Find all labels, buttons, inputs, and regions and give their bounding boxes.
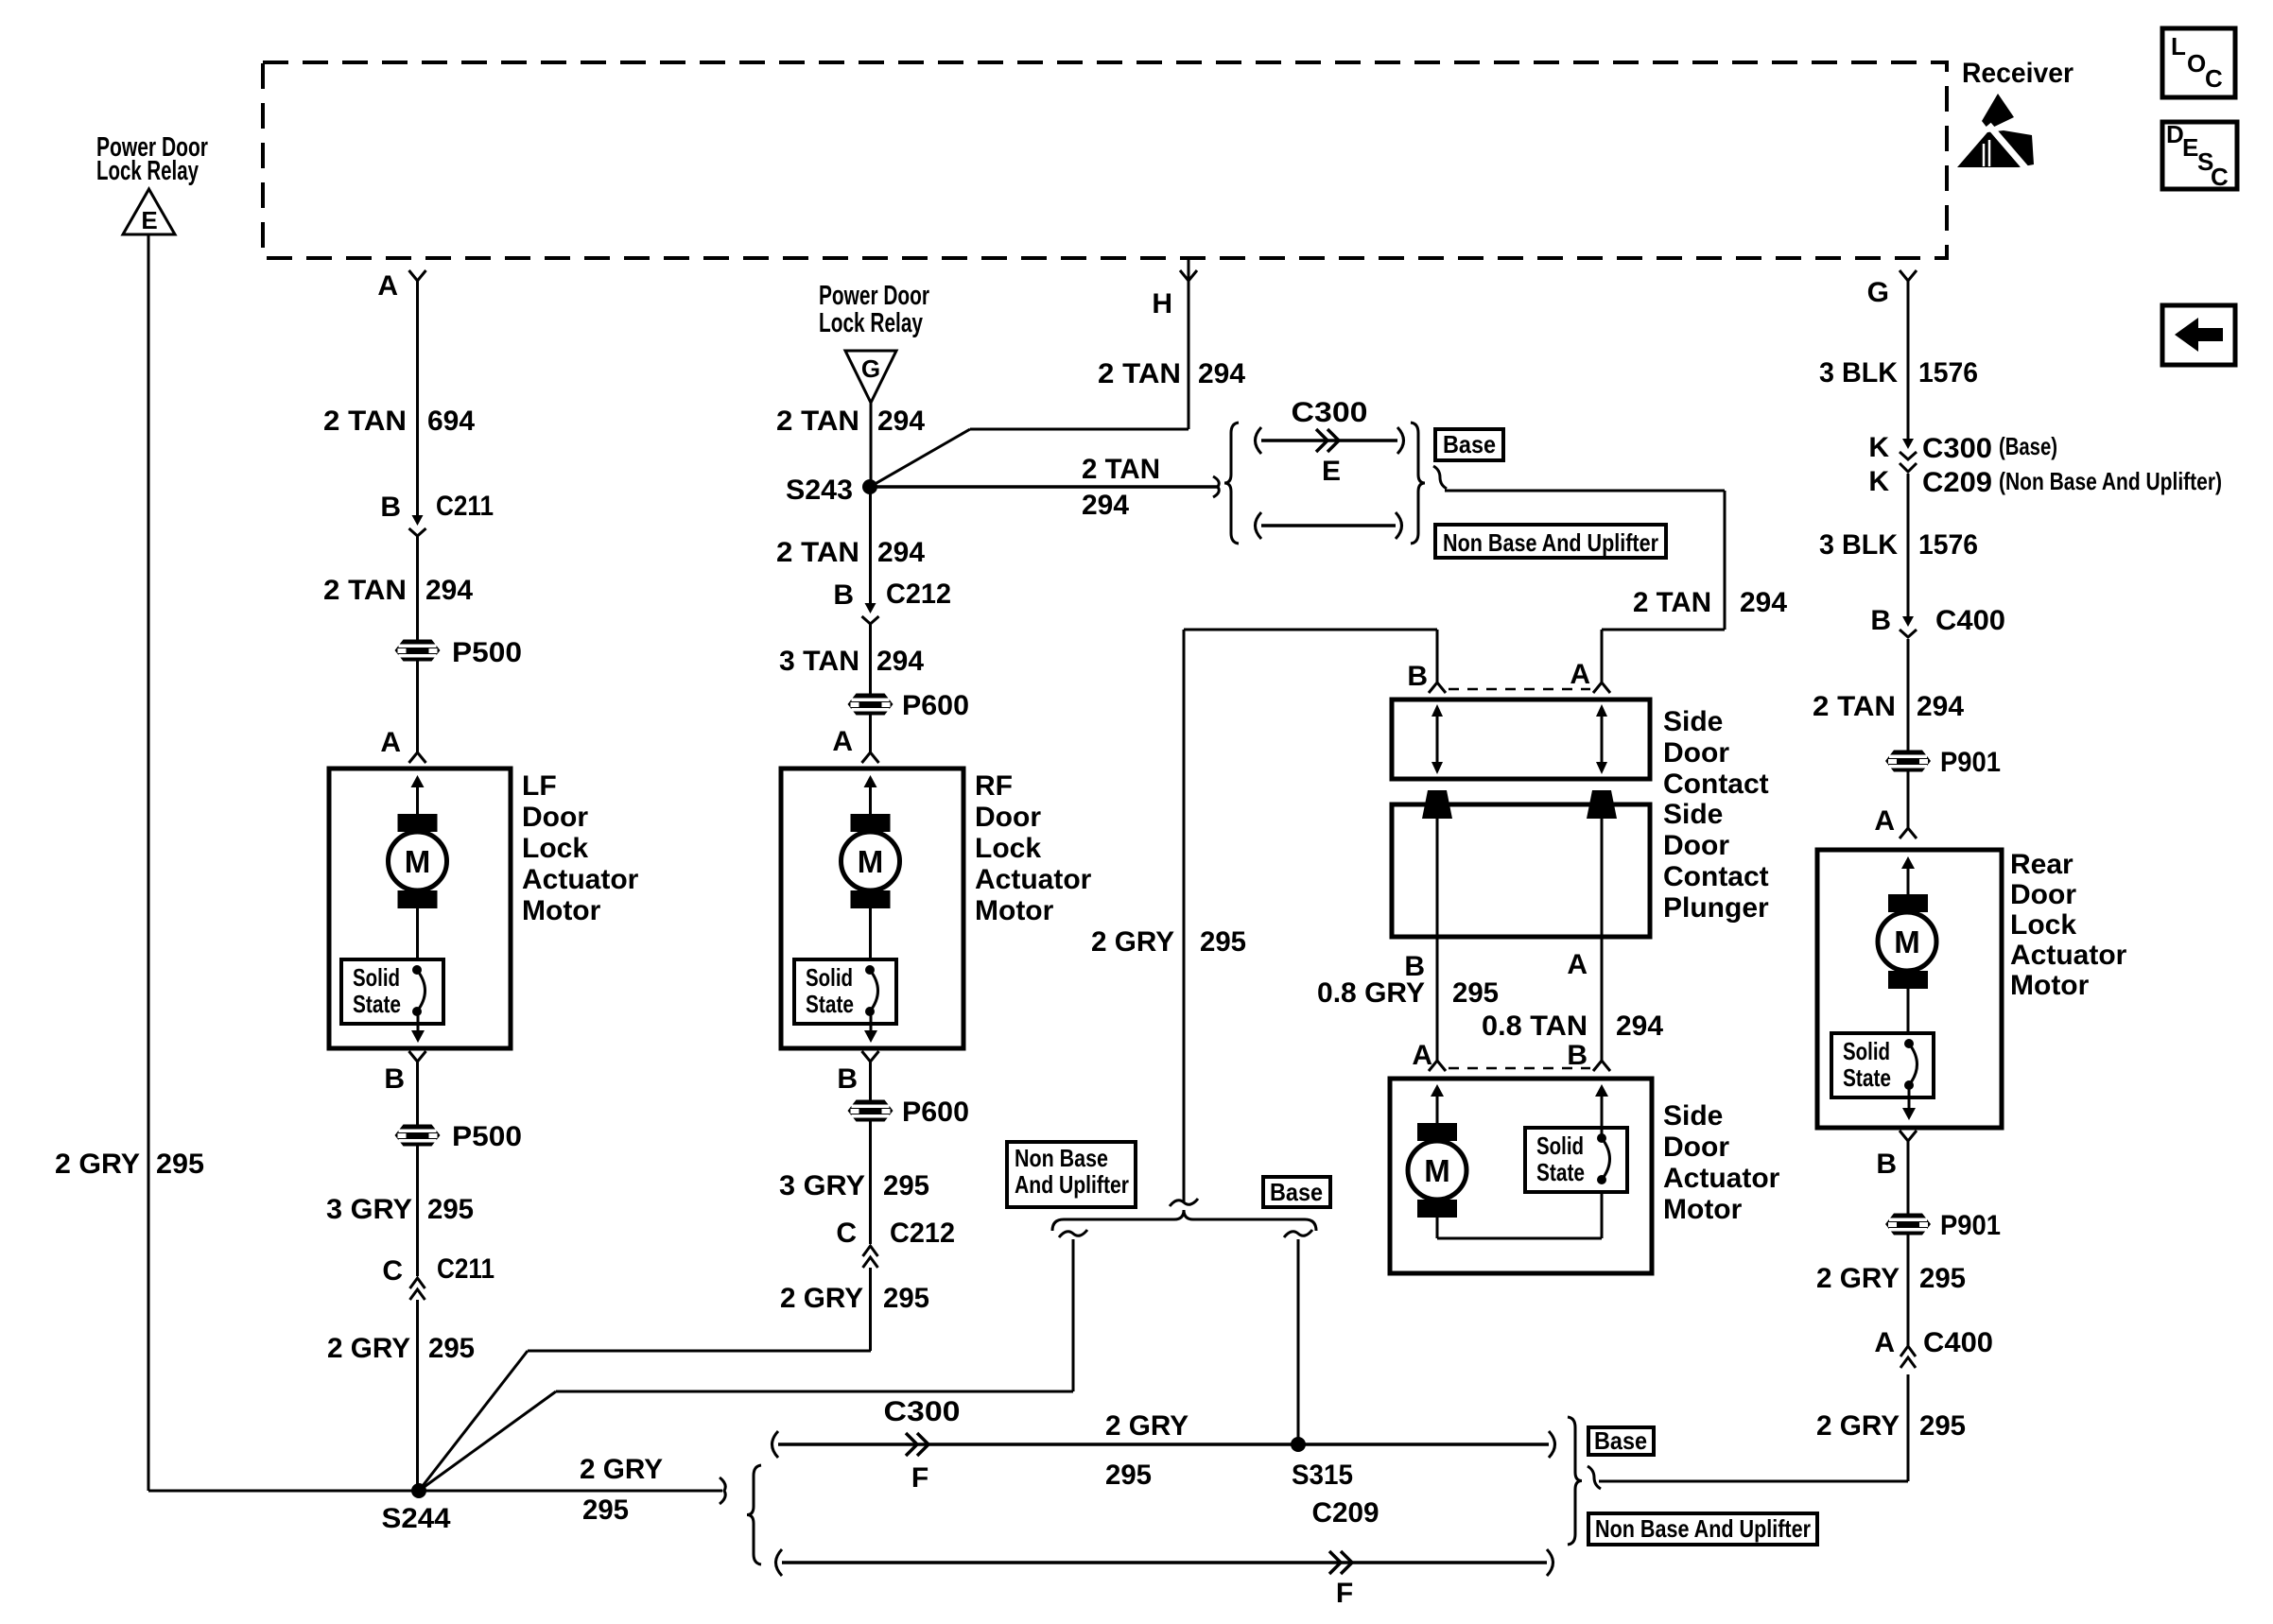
svg-text:A: A: [1570, 659, 1590, 690]
svg-text:B: B: [837, 1063, 858, 1095]
svg-text:E: E: [2182, 133, 2198, 162]
svg-text:295: 295: [883, 1170, 929, 1201]
svg-text:M: M: [858, 844, 884, 879]
svg-text:Motor: Motor: [975, 895, 1054, 926]
svg-text:295: 295: [1105, 1460, 1152, 1491]
svg-text:B: B: [833, 579, 854, 611]
svg-text:B: B: [1870, 605, 1891, 636]
svg-text:Door: Door: [1663, 1132, 1729, 1163]
svg-text:C212: C212: [890, 1218, 955, 1249]
svg-text:3 BLK: 3 BLK: [1819, 529, 1898, 561]
svg-text:C212: C212: [886, 579, 951, 610]
svg-text:State: State: [806, 990, 854, 1018]
svg-text:2 TAN: 2 TAN: [1082, 454, 1160, 485]
svg-text:Side: Side: [1663, 1100, 1723, 1132]
svg-text:3 GRY: 3 GRY: [779, 1170, 865, 1201]
svg-text:2 TAN: 2 TAN: [1633, 587, 1711, 618]
svg-text:295: 295: [1200, 926, 1246, 958]
svg-text:294: 294: [877, 537, 925, 568]
svg-text:Non Base: Non Base: [1015, 1144, 1108, 1172]
svg-text:O: O: [2187, 49, 2206, 78]
svg-text:295: 295: [1919, 1410, 1966, 1442]
svg-text:Actuator: Actuator: [522, 864, 639, 895]
svg-text:2 GRY: 2 GRY: [780, 1283, 863, 1314]
svg-text:RF: RF: [975, 770, 1013, 802]
svg-text:294: 294: [876, 646, 924, 677]
svg-text:D: D: [2166, 120, 2184, 148]
svg-text:Door: Door: [1663, 737, 1729, 769]
svg-text:A: A: [377, 270, 398, 302]
svg-text:Lock Relay: Lock Relay: [819, 308, 923, 338]
svg-text:C400: C400: [1935, 605, 2005, 636]
svg-text:P500: P500: [452, 1121, 522, 1152]
svg-text:Plunger: Plunger: [1663, 892, 1769, 924]
svg-text:K: K: [1868, 466, 1889, 497]
svg-text:2 GRY: 2 GRY: [1105, 1410, 1189, 1442]
svg-text:G: G: [861, 354, 880, 383]
svg-text:2 GRY: 2 GRY: [55, 1149, 140, 1180]
svg-text:P901: P901: [1940, 747, 2001, 778]
svg-text:2 TAN: 2 TAN: [776, 537, 859, 568]
svg-text:C400: C400: [1923, 1327, 1993, 1358]
svg-text:294: 294: [1740, 587, 1787, 618]
svg-text:295: 295: [427, 1194, 474, 1225]
svg-text:E: E: [141, 206, 157, 234]
svg-text:Door: Door: [975, 802, 1041, 833]
svg-text:295: 295: [883, 1283, 929, 1314]
svg-text:295: 295: [1919, 1263, 1966, 1294]
svg-text:A: A: [832, 726, 853, 757]
svg-text:P600: P600: [902, 1097, 969, 1128]
svg-text:Solid: Solid: [806, 963, 853, 992]
svg-text:2 GRY: 2 GRY: [1091, 926, 1174, 958]
svg-text:B: B: [1876, 1149, 1897, 1180]
svg-text:3 BLK: 3 BLK: [1819, 357, 1898, 389]
svg-text:A: A: [1567, 949, 1588, 980]
svg-text:2 TAN: 2 TAN: [1813, 691, 1896, 722]
svg-text:2 TAN: 2 TAN: [1098, 358, 1181, 389]
svg-text:C300: C300: [884, 1396, 961, 1427]
svg-text:Lock: Lock: [522, 833, 588, 864]
svg-text:294: 294: [425, 575, 473, 606]
svg-text:295: 295: [582, 1494, 629, 1526]
svg-text:F: F: [911, 1462, 928, 1494]
svg-text:C209: C209: [1922, 467, 1992, 498]
svg-text:A: A: [1874, 805, 1895, 837]
svg-text:B: B: [1567, 1040, 1588, 1071]
svg-text:C211: C211: [436, 491, 494, 522]
svg-text:E: E: [1322, 456, 1341, 487]
svg-text:S243: S243: [786, 475, 853, 506]
svg-text:M: M: [1894, 924, 1920, 959]
svg-text:Actuator: Actuator: [2010, 940, 2127, 971]
svg-text:S315: S315: [1292, 1460, 1353, 1491]
svg-text:And Uplifter: And Uplifter: [1015, 1170, 1129, 1199]
svg-text:C300: C300: [1922, 433, 1992, 464]
svg-text:Side: Side: [1663, 799, 1723, 830]
svg-text:Side: Side: [1663, 706, 1723, 737]
svg-text:State: State: [1536, 1158, 1585, 1186]
svg-text:3 GRY: 3 GRY: [326, 1194, 412, 1225]
svg-text:State: State: [1843, 1063, 1891, 1092]
svg-text:294: 294: [1198, 358, 1245, 389]
svg-text:2 GRY: 2 GRY: [1816, 1263, 1900, 1294]
svg-text:Lock: Lock: [975, 833, 1041, 864]
svg-text:Solid: Solid: [1536, 1132, 1584, 1160]
svg-text:A: A: [1412, 1040, 1432, 1071]
svg-text:Actuator: Actuator: [1663, 1163, 1780, 1194]
svg-text:H: H: [1152, 288, 1172, 320]
svg-text:C: C: [382, 1255, 403, 1287]
svg-text:Base: Base: [1594, 1426, 1647, 1455]
svg-text:P500: P500: [452, 637, 522, 668]
svg-text:1576: 1576: [1918, 529, 1978, 561]
svg-text:295: 295: [156, 1149, 204, 1180]
svg-text:0.8 GRY: 0.8 GRY: [1317, 977, 1425, 1009]
svg-text:S244: S244: [382, 1503, 451, 1534]
svg-text:0.8 TAN: 0.8 TAN: [1482, 1011, 1588, 1042]
svg-text:Solid: Solid: [353, 963, 400, 992]
svg-text:C: C: [2205, 64, 2223, 93]
svg-text:Contact: Contact: [1663, 861, 1769, 892]
svg-text:Door: Door: [1663, 830, 1729, 861]
svg-text:L: L: [2171, 32, 2186, 60]
svg-text:C211: C211: [437, 1253, 495, 1285]
svg-text:Base: Base: [1443, 430, 1496, 458]
svg-text:Motor: Motor: [1663, 1194, 1743, 1225]
svg-text:Power Door: Power Door: [819, 281, 929, 311]
svg-text:C: C: [2211, 163, 2229, 191]
svg-text:295: 295: [1452, 977, 1499, 1009]
svg-text:Door: Door: [2010, 879, 2076, 910]
svg-text:C: C: [836, 1218, 857, 1249]
svg-text:Receiver: Receiver: [1962, 58, 2073, 89]
svg-text:B: B: [384, 1063, 405, 1095]
svg-text:Door: Door: [522, 802, 588, 833]
svg-text:Motor: Motor: [2010, 970, 2090, 1001]
svg-text:Contact: Contact: [1663, 769, 1769, 800]
svg-text:G: G: [1867, 277, 1889, 308]
svg-text:2 GRY: 2 GRY: [327, 1333, 410, 1364]
svg-text:294: 294: [1917, 691, 1964, 722]
svg-text:M: M: [405, 844, 431, 879]
svg-text:Lock: Lock: [2010, 909, 2076, 941]
svg-text:C300: C300: [1292, 397, 1368, 428]
svg-text:Base: Base: [1270, 1178, 1323, 1206]
svg-text:Lock Relay: Lock Relay: [96, 156, 199, 186]
svg-text:P600: P600: [902, 690, 969, 721]
svg-text:294: 294: [1616, 1011, 1663, 1042]
svg-text:B: B: [1407, 661, 1428, 692]
svg-text:F: F: [1336, 1578, 1353, 1609]
svg-text:P901: P901: [1940, 1210, 2001, 1241]
svg-text:2 TAN: 2 TAN: [776, 406, 859, 437]
svg-text:694: 694: [427, 406, 475, 437]
svg-text:(Non Base And Uplifter): (Non Base And Uplifter): [1999, 467, 2222, 495]
svg-text:294: 294: [1082, 490, 1129, 521]
svg-text:K: K: [1868, 432, 1889, 463]
svg-text:Non Base And Uplifter: Non Base And Uplifter: [1443, 528, 1658, 557]
svg-text:State: State: [353, 990, 401, 1018]
svg-text:3 TAN: 3 TAN: [779, 646, 859, 677]
svg-text:2 TAN: 2 TAN: [323, 406, 407, 437]
svg-text:C209: C209: [1312, 1497, 1379, 1529]
svg-text:294: 294: [877, 406, 925, 437]
svg-text:1576: 1576: [1918, 357, 1978, 389]
svg-text:A: A: [1874, 1327, 1895, 1358]
svg-text:Actuator: Actuator: [975, 864, 1092, 895]
svg-text:LF: LF: [522, 770, 557, 802]
svg-text:2 GRY: 2 GRY: [580, 1454, 663, 1485]
svg-text:Non Base And Uplifter: Non Base And Uplifter: [1595, 1514, 1811, 1543]
svg-text:B: B: [380, 492, 401, 523]
svg-text:A: A: [380, 727, 401, 758]
svg-text:Rear: Rear: [2010, 849, 2073, 880]
svg-text:Motor: Motor: [522, 895, 601, 926]
svg-text:295: 295: [428, 1333, 475, 1364]
svg-text:2 GRY: 2 GRY: [1816, 1410, 1900, 1442]
svg-text:Solid: Solid: [1843, 1037, 1890, 1065]
svg-text:(Base): (Base): [1999, 432, 2057, 460]
svg-text:2 TAN: 2 TAN: [323, 575, 407, 606]
svg-text:M: M: [1424, 1153, 1450, 1188]
